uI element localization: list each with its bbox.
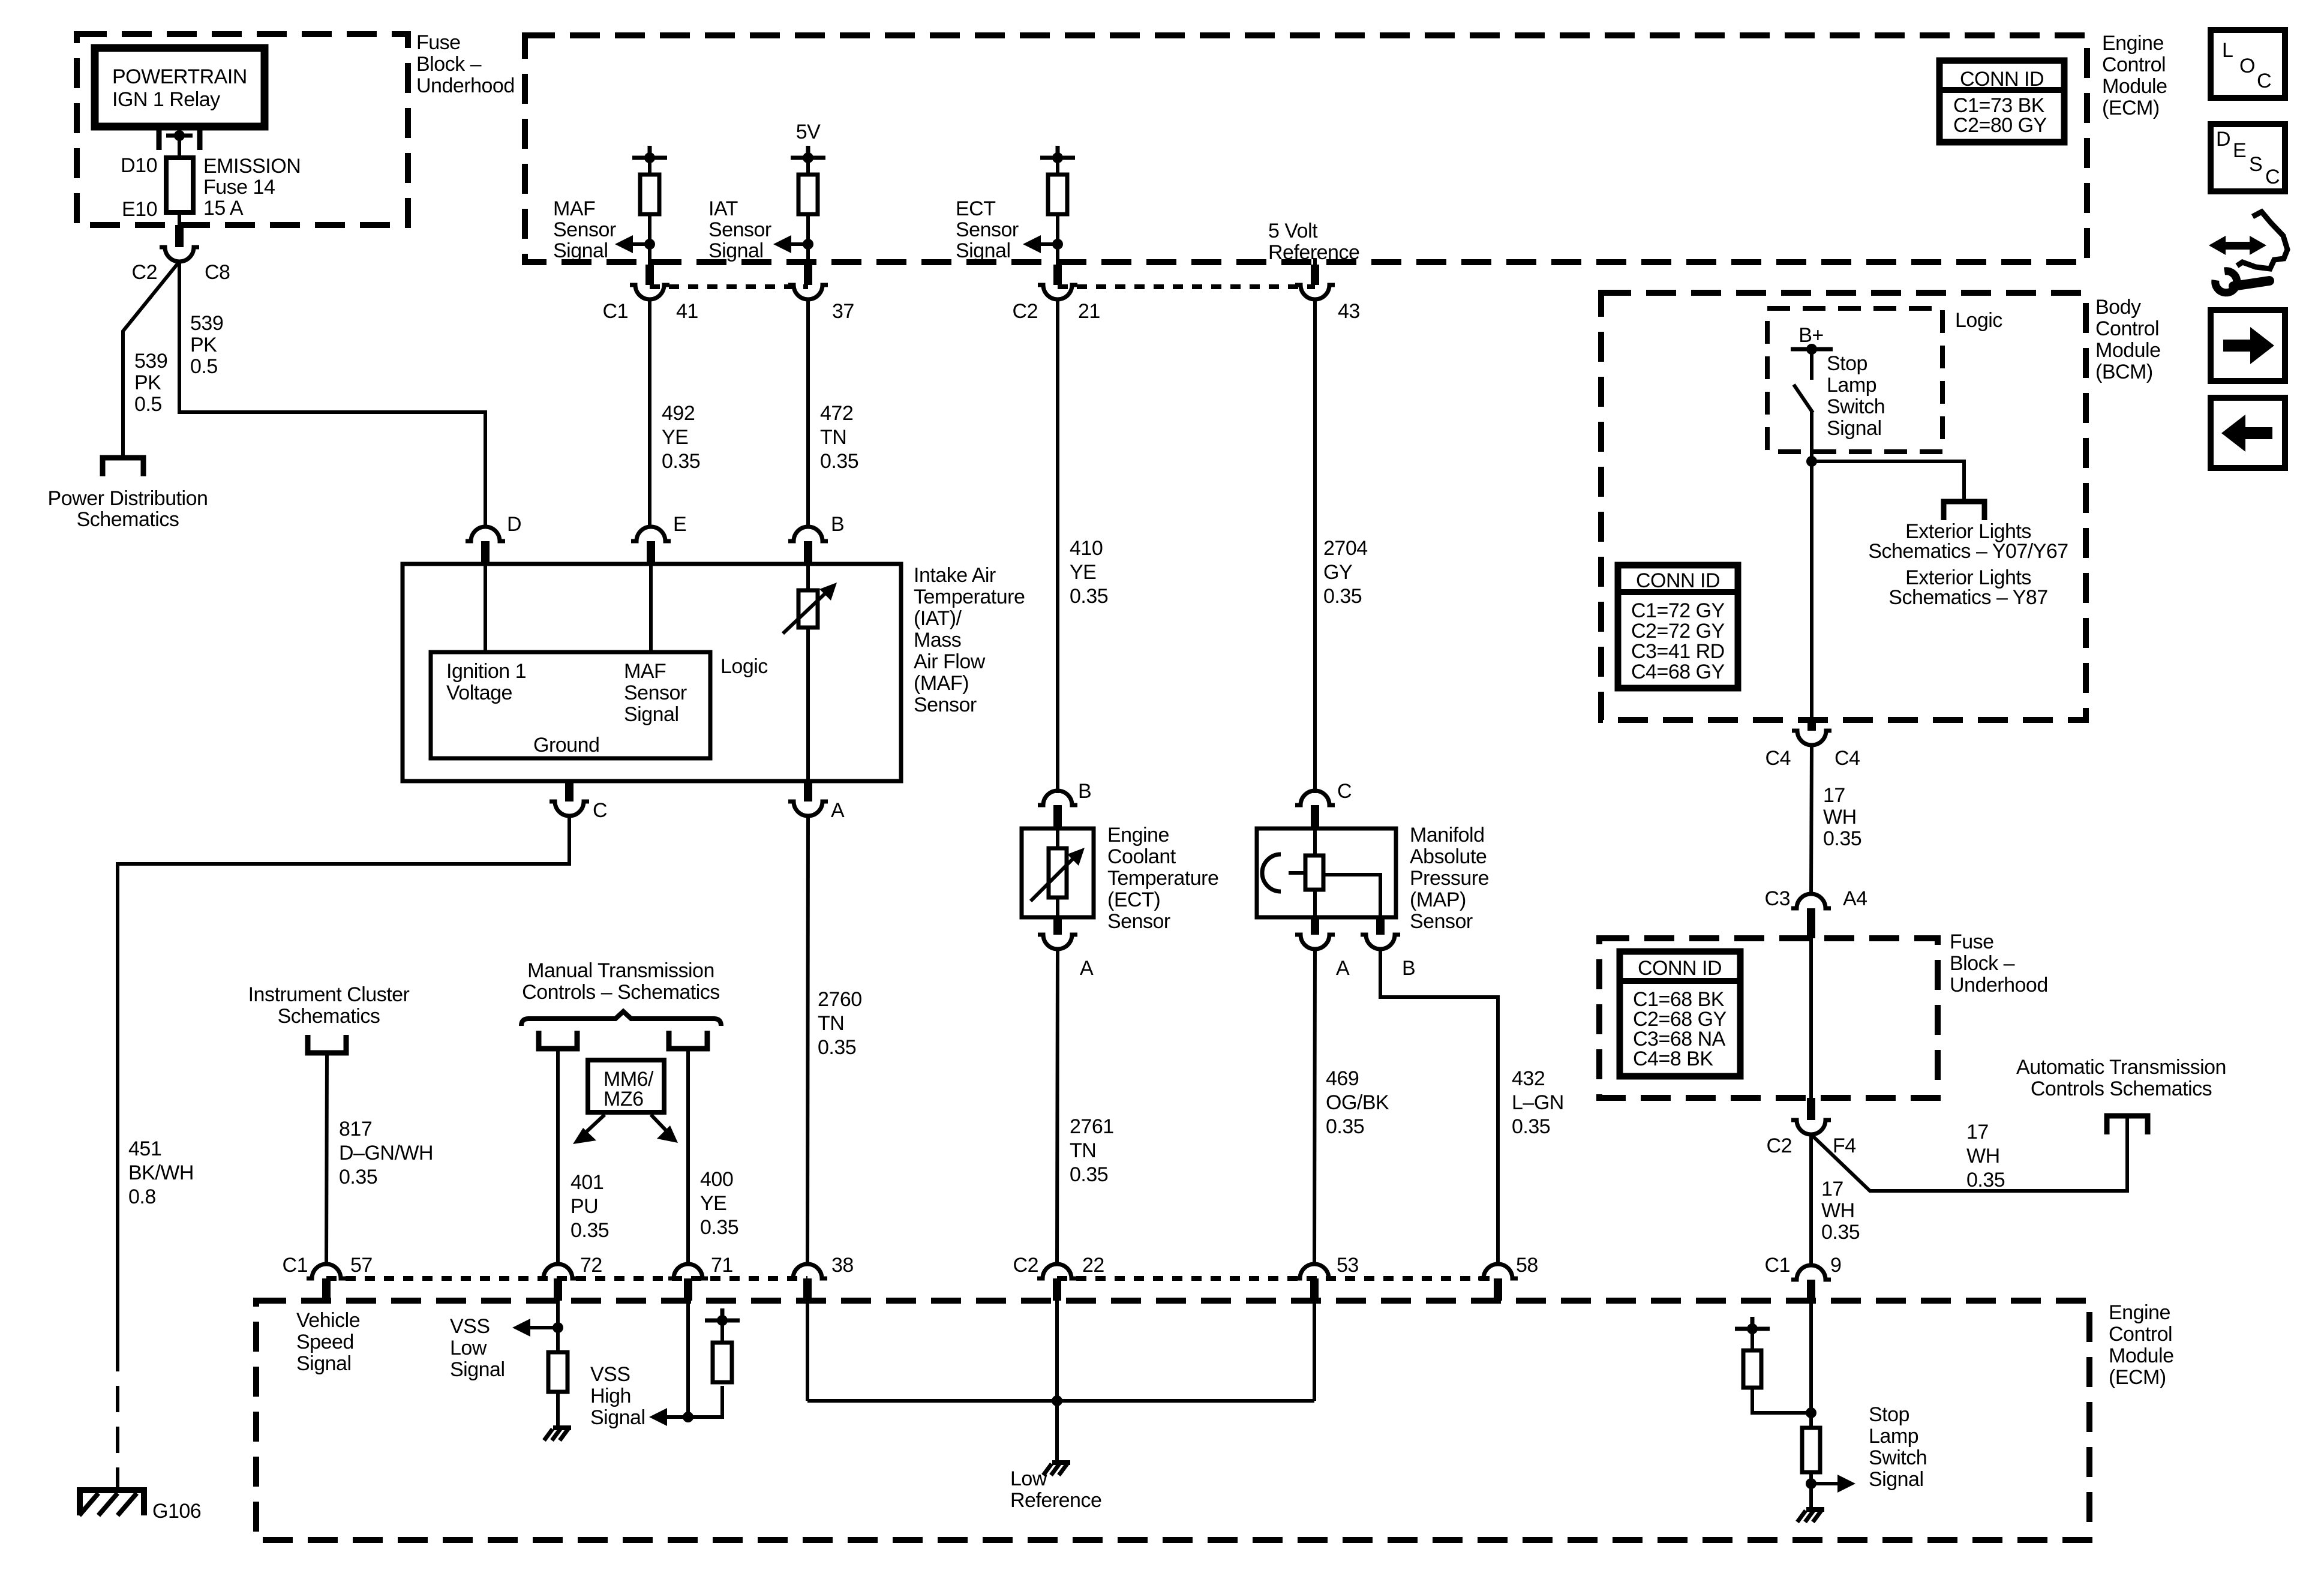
wire 492 YE 0.35 (pin 41 to MAF sensor E) bbox=[648, 299, 651, 528]
icon arrow right box bbox=[2211, 310, 2285, 381]
svg-text:Instrument Cluster: Instrument Cluster bbox=[248, 983, 410, 1006]
svg-text:Temperature: Temperature bbox=[1107, 867, 1218, 890]
svg-text:A: A bbox=[1080, 957, 1094, 980]
svg-text:17: 17 bbox=[1966, 1121, 1989, 1143]
wire 17 WH 0.35 to automatic transmission bbox=[1811, 1117, 2127, 1191]
svg-text:492: 492 bbox=[662, 402, 695, 425]
svg-text:0.35: 0.35 bbox=[1070, 585, 1108, 608]
svg-text:Sensor: Sensor bbox=[708, 218, 771, 241]
svg-text:MAF: MAF bbox=[624, 660, 666, 683]
svg-text:(MAF): (MAF) bbox=[914, 672, 969, 695]
off-page connector manual transmission (right) bbox=[669, 1031, 707, 1049]
wire 451 BK/WH 0.8 (MAF ground to G106) bbox=[118, 816, 569, 1345]
connector C3/A4 (fuse block) bbox=[1765, 887, 1867, 938]
svg-text:ECT: ECT bbox=[956, 197, 996, 220]
svg-text:IGN 1 Relay: IGN 1 Relay bbox=[112, 88, 220, 111]
svg-text:72: 72 bbox=[580, 1254, 602, 1277]
svg-text:C4=68 GY: C4=68 GY bbox=[1631, 661, 1725, 683]
svg-text:Controls – Schematics: Controls – Schematics bbox=[522, 981, 720, 1004]
svg-text:WH: WH bbox=[1966, 1145, 2000, 1167]
MAF sensor inner logic box bbox=[431, 652, 710, 758]
svg-text:Signal: Signal bbox=[956, 239, 1011, 262]
svg-text:Module: Module bbox=[2109, 1344, 2174, 1367]
svg-text:Switch: Switch bbox=[1827, 395, 1885, 418]
node IAT sensor signal junction bbox=[803, 239, 813, 250]
label instrument cluster schematics bbox=[248, 983, 410, 1028]
svg-text:B: B bbox=[1078, 780, 1091, 803]
svg-text:OG/BK: OG/BK bbox=[1326, 1091, 1389, 1114]
svg-text:Sensor: Sensor bbox=[914, 694, 977, 716]
svg-text:Power Distribution: Power Distribution bbox=[48, 487, 208, 510]
arrow MAF sensor signal bbox=[615, 235, 650, 253]
label 17 WH 0.35 (lower) bbox=[1821, 1178, 1860, 1244]
connector C2 pin 21 bbox=[1013, 265, 1100, 323]
svg-text:MAF: MAF bbox=[553, 197, 595, 220]
label ECT sensor signal bbox=[956, 197, 1019, 262]
wire through fuse block bbox=[1809, 938, 1813, 1098]
svg-text:Reference: Reference bbox=[1010, 1489, 1101, 1512]
svg-text:58: 58 bbox=[1516, 1254, 1538, 1277]
svg-text:(MAP): (MAP) bbox=[1410, 888, 1466, 911]
wire 400 YE 0.35 (to pin 71) bbox=[686, 1049, 690, 1265]
svg-text:L: L bbox=[2222, 39, 2233, 62]
svg-text:(ECM): (ECM) bbox=[2102, 97, 2160, 119]
svg-text:C1: C1 bbox=[603, 300, 628, 323]
label manifold absolute pressure MAP sensor bbox=[1410, 824, 1489, 933]
connector C2/F4 (fuse block) bbox=[1767, 1098, 1856, 1157]
svg-text:0.35: 0.35 bbox=[1823, 827, 1861, 850]
connector B (MAF sensor) bbox=[788, 513, 844, 564]
svg-text:0.35: 0.35 bbox=[700, 1216, 738, 1239]
label 492 YE 0.35 bbox=[662, 402, 700, 473]
svg-text:C3: C3 bbox=[1765, 887, 1790, 910]
connector C (MAF sensor ground) bbox=[550, 781, 607, 822]
resistor MAF pullup in ECM bbox=[632, 146, 667, 285]
svg-text:C3=41 RD: C3=41 RD bbox=[1631, 640, 1725, 663]
label vehicle speed signal bbox=[296, 1309, 360, 1375]
node VSS low junction bbox=[553, 1322, 563, 1333]
svg-text:WH: WH bbox=[1823, 806, 1857, 828]
connector B (MAP sensor) bbox=[1361, 917, 1415, 980]
ground G106 bbox=[79, 1490, 201, 1523]
svg-text:Fuse: Fuse bbox=[416, 31, 461, 54]
connector dotted line C2 (22-58) bbox=[1057, 1276, 1498, 1281]
svg-text:539: 539 bbox=[134, 350, 167, 373]
connector C1 pin 71 bbox=[668, 1254, 733, 1301]
svg-text:C4: C4 bbox=[1765, 747, 1791, 770]
svg-text:CONN ID: CONN ID bbox=[1638, 957, 1722, 980]
wire 5 volt reference stub bbox=[1313, 258, 1317, 285]
wire 432 L-GN 0.35 (MAP 5V to pin 58) bbox=[1380, 949, 1498, 1265]
svg-text:(ECM): (ECM) bbox=[2109, 1366, 2166, 1389]
wire 410 YE 0.35 (pin 21 to ECT sensor B) bbox=[1056, 299, 1059, 793]
svg-text:E: E bbox=[2233, 139, 2246, 162]
svg-text:GY: GY bbox=[1323, 561, 1352, 584]
label 2704 GY 0.35 bbox=[1323, 537, 1368, 608]
svg-text:IAT: IAT bbox=[708, 197, 738, 220]
wire E to inner box bbox=[649, 564, 653, 652]
svg-text:38: 38 bbox=[831, 1254, 854, 1277]
wire B+ to switch bbox=[1810, 349, 1813, 380]
svg-text:C2=72 GY: C2=72 GY bbox=[1631, 620, 1725, 643]
svg-text:0.35: 0.35 bbox=[1070, 1163, 1108, 1186]
svg-text:Speed: Speed bbox=[296, 1331, 354, 1353]
svg-text:Lamp: Lamp bbox=[1827, 374, 1876, 397]
label 539 PK 0.5 (C2 branch) bbox=[134, 350, 167, 416]
label MAF sensor signal bbox=[553, 197, 616, 262]
label 400 YE 0.35 bbox=[700, 1168, 738, 1239]
svg-text:CONN ID: CONN ID bbox=[1636, 569, 1720, 592]
wire relay output bbox=[178, 127, 181, 158]
off-page connector to power distribution bbox=[103, 458, 143, 476]
svg-text:5 Volt: 5 Volt bbox=[1268, 220, 1318, 242]
svg-text:A4: A4 bbox=[1843, 887, 1867, 910]
connector C1 pin 9 bbox=[1765, 1254, 1842, 1301]
svg-text:2761: 2761 bbox=[1070, 1115, 1114, 1138]
resistor stop lamp pullup branch bbox=[1735, 1317, 1811, 1413]
svg-text:D: D bbox=[507, 513, 521, 536]
svg-text:(BCM): (BCM) bbox=[2095, 361, 2153, 383]
svg-text:Vehicle: Vehicle bbox=[296, 1309, 360, 1332]
svg-text:400: 400 bbox=[700, 1168, 733, 1191]
svg-text:472: 472 bbox=[820, 402, 853, 425]
svg-text:C8: C8 bbox=[205, 261, 230, 284]
svg-text:Control: Control bbox=[2102, 53, 2166, 76]
label VSS low signal bbox=[450, 1315, 505, 1381]
arrow MM6 right bbox=[651, 1115, 678, 1143]
svg-text:37: 37 bbox=[832, 300, 854, 323]
svg-text:9: 9 bbox=[1830, 1254, 1841, 1277]
resistor VSS low bbox=[548, 1352, 568, 1428]
wire 539 PK 0.5 (C2 branch) to power distribution bbox=[123, 262, 179, 458]
label 817 D-GN/WH 0.35 bbox=[339, 1118, 433, 1188]
svg-text:Module: Module bbox=[2095, 339, 2161, 362]
svg-text:C: C bbox=[2265, 166, 2280, 188]
ECT thermistor bbox=[1031, 848, 1085, 901]
svg-text:E: E bbox=[673, 513, 686, 536]
svg-text:C4=8 BK: C4=8 BK bbox=[1633, 1047, 1713, 1070]
svg-text:0.35: 0.35 bbox=[339, 1166, 377, 1188]
arrow IAT sensor signal bbox=[773, 235, 808, 253]
svg-text:A: A bbox=[831, 799, 845, 822]
svg-text:Intake Air: Intake Air bbox=[914, 564, 996, 587]
svg-text:D: D bbox=[2216, 128, 2230, 151]
svg-text:Underhood: Underhood bbox=[1950, 974, 2048, 996]
svg-text:Automatic Transmission: Automatic Transmission bbox=[2016, 1056, 2226, 1079]
svg-text:High: High bbox=[590, 1385, 631, 1407]
wire stop lamp signal inside ECM bbox=[1809, 1301, 1813, 1428]
brace manual transmission bbox=[521, 1011, 721, 1026]
svg-text:0.5: 0.5 bbox=[190, 355, 218, 378]
svg-text:B: B bbox=[1402, 957, 1415, 980]
label intake air temperature mass air flow sensor bbox=[914, 564, 1025, 716]
svg-text:71: 71 bbox=[711, 1254, 733, 1277]
svg-text:YE: YE bbox=[1070, 561, 1096, 584]
svg-text:Mass: Mass bbox=[914, 629, 961, 652]
svg-text:0.35: 0.35 bbox=[1323, 585, 1362, 608]
svg-text:YE: YE bbox=[662, 426, 688, 449]
svg-text:C2=80 GY: C2=80 GY bbox=[1953, 114, 2047, 137]
svg-text:Signal: Signal bbox=[553, 239, 608, 262]
connector dotted line C2 (21-43) bbox=[1058, 284, 1315, 289]
svg-text:Engine: Engine bbox=[1107, 824, 1169, 846]
off-page connector manual transmission (left) bbox=[539, 1031, 577, 1049]
svg-text:MZ6: MZ6 bbox=[603, 1088, 644, 1110]
connector D (MAF sensor) bbox=[466, 513, 521, 564]
fuse block underhood (top-left dashed box) bbox=[77, 34, 408, 225]
BCM CONN ID table bbox=[1618, 565, 1738, 688]
label low reference bbox=[1010, 1467, 1101, 1512]
ground low reference bbox=[1043, 1463, 1070, 1475]
svg-text:Module: Module bbox=[2102, 75, 2167, 98]
svg-text:C: C bbox=[1337, 780, 1352, 803]
svg-text:Signal: Signal bbox=[708, 239, 764, 262]
node stop lamp junction bbox=[1806, 456, 1817, 467]
svg-text:VSS: VSS bbox=[590, 1363, 630, 1386]
svg-text:0.8: 0.8 bbox=[128, 1185, 156, 1208]
wire through ECT sensor bbox=[1056, 828, 1059, 917]
svg-text:C4: C4 bbox=[1834, 747, 1860, 770]
relay K: POWERTRAIN IGN 1 Relay bbox=[95, 48, 265, 127]
svg-text:B: B bbox=[831, 513, 844, 536]
wire 2760 TN 0.35 (IAT signal to pin 38) bbox=[807, 816, 808, 1265]
connector E (MAF sensor) bbox=[631, 513, 686, 564]
svg-text:Low: Low bbox=[1010, 1467, 1047, 1490]
svg-text:S: S bbox=[2249, 153, 2262, 176]
engine control module ECM (top dashed box) bbox=[525, 35, 2087, 262]
node MAF sensor signal junction bbox=[644, 239, 655, 250]
connector dotted line C1 (57-38) bbox=[326, 1276, 807, 1281]
svg-text:Signal: Signal bbox=[450, 1358, 505, 1381]
svg-text:D–GN/WH: D–GN/WH bbox=[339, 1142, 433, 1164]
label E10 bbox=[122, 198, 157, 221]
connector C2/C8 bbox=[132, 225, 230, 284]
svg-text:Signal: Signal bbox=[590, 1406, 645, 1429]
svg-text:Underhood: Underhood bbox=[416, 74, 515, 97]
svg-text:Fuse: Fuse bbox=[1950, 930, 1994, 953]
svg-text:C: C bbox=[2257, 70, 2271, 92]
connector C2 pin 43 bbox=[1295, 265, 1360, 323]
svg-text:Sensor: Sensor bbox=[1410, 910, 1473, 933]
connector B (ECT sensor) bbox=[1038, 780, 1091, 828]
svg-text:C2: C2 bbox=[1013, 1254, 1038, 1277]
svg-text:Stop: Stop bbox=[1869, 1403, 1909, 1426]
svg-text:Engine: Engine bbox=[2109, 1301, 2170, 1324]
svg-text:C2: C2 bbox=[1013, 300, 1038, 323]
node low reference junction bbox=[1052, 1395, 1062, 1406]
svg-text:Signal: Signal bbox=[1869, 1468, 1924, 1491]
label D10 bbox=[121, 154, 157, 177]
label 472 TN 0.35 bbox=[820, 402, 858, 473]
svg-text:F4: F4 bbox=[1833, 1134, 1856, 1157]
svg-text:401: 401 bbox=[571, 1171, 603, 1194]
svg-text:43: 43 bbox=[1338, 300, 1360, 323]
svg-text:O: O bbox=[2239, 55, 2255, 77]
wire 2761 TN 0.35 (ECT signal to pin 22) bbox=[1057, 949, 1058, 1265]
icon wrench and arrows bbox=[2209, 212, 2287, 293]
svg-text:Sensor: Sensor bbox=[956, 218, 1019, 241]
svg-text:0.35: 0.35 bbox=[1821, 1221, 1860, 1244]
svg-text:BK/WH: BK/WH bbox=[128, 1161, 194, 1184]
svg-text:Block –: Block – bbox=[416, 53, 482, 76]
svg-text:Logic: Logic bbox=[1955, 309, 2002, 332]
resistor ECT pullup in ECM bbox=[1040, 146, 1075, 285]
node stop lamp pullup junction bbox=[1806, 1407, 1816, 1418]
wire 17 WH 0.35 (C4 to A4) bbox=[1811, 745, 1812, 894]
connector A (MAP sensor) bbox=[1295, 917, 1350, 980]
label VSS high signal bbox=[590, 1363, 645, 1429]
svg-text:A: A bbox=[1336, 957, 1350, 980]
svg-text:Pressure: Pressure bbox=[1410, 867, 1489, 890]
svg-text:432: 432 bbox=[1512, 1067, 1545, 1090]
svg-text:E10: E10 bbox=[122, 198, 157, 221]
svg-text:Low: Low bbox=[450, 1337, 487, 1359]
svg-text:POWERTRAIN: POWERTRAIN bbox=[112, 65, 247, 88]
body control module BCM (dashed box) bbox=[1601, 293, 2086, 720]
ground stop lamp bbox=[1797, 1509, 1824, 1522]
fuse block underhood (right dashed box) bbox=[1599, 938, 1938, 1098]
connector C1 pin 41 bbox=[603, 265, 698, 323]
label 432 L-GN 0.35 bbox=[1512, 1067, 1564, 1138]
wire 817 D-GN/WH 0.35 (to pin 57) bbox=[326, 1053, 327, 1265]
wire low reference bus bbox=[807, 1399, 1314, 1403]
svg-text:Coolant: Coolant bbox=[1107, 845, 1176, 868]
label 5V bbox=[796, 121, 821, 143]
svg-text:Stop: Stop bbox=[1827, 352, 1867, 375]
svg-text:C2: C2 bbox=[1767, 1134, 1792, 1157]
svg-text:0.5: 0.5 bbox=[134, 393, 162, 416]
svg-text:Control: Control bbox=[2095, 317, 2159, 340]
connector dotted line C1 (41-37) bbox=[650, 284, 808, 289]
off-page connector exterior lights bbox=[1944, 502, 1984, 520]
svg-text:22: 22 bbox=[1082, 1254, 1104, 1277]
svg-text:5V: 5V bbox=[796, 121, 821, 143]
node ECT sensor signal junction bbox=[1052, 239, 1063, 250]
svg-text:Ground: Ground bbox=[533, 734, 599, 757]
wire low reference from pin 53 bbox=[1313, 1301, 1316, 1401]
connector C2 pin 53 bbox=[1295, 1254, 1359, 1301]
icon DESC box bbox=[2211, 124, 2285, 191]
svg-text:C1=72 GY: C1=72 GY bbox=[1631, 599, 1725, 622]
svg-text:Control: Control bbox=[2109, 1323, 2172, 1346]
wire 469 OG/BK 0.35 (MAP signal to pin 53) bbox=[1314, 949, 1315, 1265]
ground VSS low bbox=[544, 1428, 571, 1440]
IAT/MAF sensor box bbox=[403, 564, 901, 781]
svg-text:410: 410 bbox=[1070, 537, 1103, 560]
svg-text:Sensor: Sensor bbox=[553, 218, 616, 241]
connector C2 pin 22 bbox=[1013, 1254, 1104, 1301]
ECM CONN ID table bbox=[1939, 61, 2064, 142]
off-page connector automatic transmission bbox=[2107, 1116, 2148, 1134]
svg-text:539: 539 bbox=[190, 312, 223, 335]
ECT sensor box bbox=[1022, 828, 1094, 917]
svg-text:Schematics – Y07/Y67: Schematics – Y07/Y67 bbox=[1868, 540, 2068, 563]
label 5 volt reference bbox=[1268, 220, 1359, 264]
node B+ stop lamp switch bbox=[1791, 324, 1833, 355]
svg-text:(IAT)/: (IAT)/ bbox=[914, 607, 962, 630]
svg-text:TN: TN bbox=[818, 1012, 844, 1035]
MM6/MZ6 box bbox=[588, 1060, 664, 1112]
label manual transmission controls schematics bbox=[522, 959, 720, 1004]
connector C4/C4 (BCM) bbox=[1765, 720, 1860, 770]
resistor VSS high branch bbox=[688, 1308, 740, 1417]
svg-text:Signal: Signal bbox=[1827, 417, 1882, 440]
svg-text:17: 17 bbox=[1821, 1178, 1843, 1200]
label 410 YE 0.35 bbox=[1070, 537, 1108, 608]
svg-text:C1: C1 bbox=[283, 1254, 308, 1277]
wire 401 PU 0.35 (to pin 72) bbox=[556, 1049, 560, 1265]
wire VSS low inside ECM bbox=[556, 1301, 560, 1355]
engine control module ECM (bottom dashed box) bbox=[256, 1301, 2089, 1540]
IAT thermistor bbox=[783, 583, 837, 634]
svg-text:Body: Body bbox=[2095, 296, 2141, 319]
wire to exterior lights bbox=[1812, 461, 1964, 502]
label power distribution schematics bbox=[48, 487, 208, 531]
wire switch to C4 bbox=[1810, 410, 1813, 722]
svg-text:WH: WH bbox=[1821, 1199, 1855, 1222]
wire low reference from pin 38 bbox=[806, 1301, 809, 1401]
label body control module BCM bbox=[2095, 296, 2161, 383]
label fuse block underhood (right) bbox=[1950, 930, 2048, 996]
wire fuse to connector C2/C8 bbox=[178, 212, 181, 226]
label 469 OG/BK 0.35 bbox=[1326, 1067, 1389, 1138]
svg-text:Air Flow: Air Flow bbox=[914, 650, 986, 673]
wire 451 dashed section bbox=[116, 1345, 119, 1488]
label 539 PK 0.5 (C8 branch) bbox=[190, 312, 223, 378]
label logic (MAF sensor) bbox=[720, 655, 768, 678]
resistor IAT pullup in ECM bbox=[791, 146, 825, 285]
svg-text:0.35: 0.35 bbox=[1326, 1115, 1364, 1138]
svg-text:0.35: 0.35 bbox=[1966, 1169, 2005, 1191]
wire 539 PK 0.5 (C8 branch) to MAF sensor D bbox=[179, 262, 485, 528]
node stop lamp signal junction bbox=[1806, 1478, 1816, 1489]
label exterior lights schematics Y87 bbox=[1888, 566, 2047, 609]
svg-text:Sensor: Sensor bbox=[624, 682, 687, 704]
connector C1 pin 72 bbox=[538, 1254, 602, 1301]
svg-text:Controls Schematics: Controls Schematics bbox=[2031, 1077, 2212, 1100]
connector C (MAP sensor) bbox=[1295, 780, 1352, 828]
label 17 WH 0.35 (upper) bbox=[1823, 784, 1861, 850]
svg-text:17: 17 bbox=[1823, 784, 1845, 807]
svg-text:57: 57 bbox=[350, 1254, 373, 1277]
connector C1 pin 57 bbox=[283, 1254, 373, 1301]
label exterior lights schematics Y07/Y67 bbox=[1868, 520, 2068, 563]
resistor stop lamp bbox=[1802, 1428, 1820, 1509]
svg-text:0.35: 0.35 bbox=[1512, 1115, 1550, 1138]
connector C1 pin 37 bbox=[788, 265, 854, 323]
BCM logic dashed box bbox=[1767, 308, 1942, 452]
label 451 BK/WH 0.8 bbox=[128, 1137, 194, 1208]
svg-text:Engine: Engine bbox=[2102, 32, 2164, 55]
wire low reference from pin 22 bbox=[1055, 1301, 1059, 1401]
label stop lamp switch signal (BCM) bbox=[1827, 352, 1885, 440]
svg-text:G106: G106 bbox=[152, 1500, 201, 1523]
label engine coolant temperature ECT sensor bbox=[1107, 824, 1218, 933]
svg-text:2704: 2704 bbox=[1323, 537, 1368, 560]
svg-text:Absolute: Absolute bbox=[1410, 845, 1487, 868]
wire D to inner box bbox=[484, 564, 487, 652]
icon LOC box bbox=[2211, 30, 2285, 98]
svg-text:Lamp: Lamp bbox=[1869, 1425, 1918, 1448]
wire 472 TN 0.35 (pin 37 to MAF sensor B) bbox=[806, 299, 810, 528]
svg-text:CONN ID: CONN ID bbox=[1960, 68, 2044, 91]
label engine control module ECM bbox=[2102, 32, 2167, 119]
svg-text:VSS: VSS bbox=[450, 1315, 490, 1338]
svg-text:Manifold: Manifold bbox=[1410, 824, 1485, 846]
wire B through IAT thermistor bbox=[806, 564, 810, 781]
svg-text:Logic: Logic bbox=[720, 655, 768, 678]
connector A (MAF sensor IAT signal) bbox=[788, 781, 845, 822]
